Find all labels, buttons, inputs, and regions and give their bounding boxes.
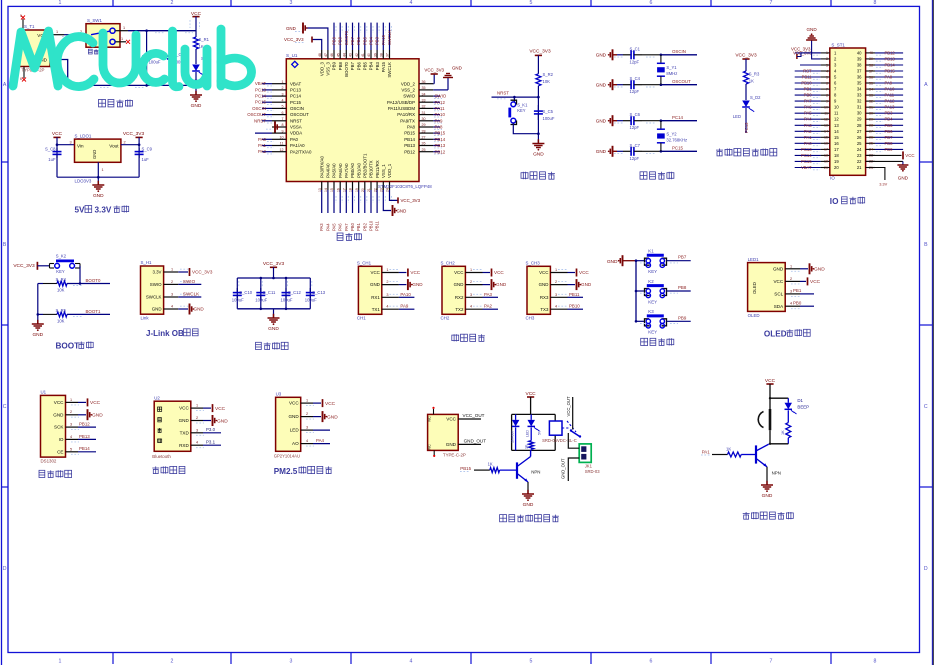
svg-text:SRD-03: SRD-03: [585, 469, 601, 474]
svg-text:S_CH2: S_CH2: [441, 260, 456, 265]
svg-text:PA1/A0: PA1/A0: [290, 143, 305, 148]
svg-text:PB12: PB12: [79, 421, 90, 426]
svg-text:PB4: PB4: [369, 36, 374, 45]
svg-text:100uF: 100uF: [305, 298, 317, 303]
svg-text:CE: CE: [57, 449, 63, 454]
svg-text:20: 20: [834, 165, 839, 170]
svg-text:35: 35: [422, 86, 426, 90]
svg-text:4: 4: [410, 658, 413, 664]
svg-text:S_CH1: S_CH1: [357, 260, 372, 265]
svg-text:VCC: VCC: [494, 270, 504, 275]
svg-text:1uF: 1uF: [142, 157, 150, 162]
svg-text:17: 17: [834, 147, 839, 152]
svg-text:3: 3: [171, 293, 173, 297]
svg-text:34: 34: [869, 87, 873, 91]
svg-text:VDD_1: VDD_1: [387, 163, 392, 178]
svg-text:PB1/A0: PB1/A0: [356, 163, 361, 178]
svg-text:1: 1: [70, 398, 72, 402]
svg-text:2: 2: [171, 280, 173, 284]
svg-text:GND: GND: [596, 82, 607, 87]
svg-text:37: 37: [857, 69, 862, 74]
svg-text:PB7: PB7: [885, 135, 894, 140]
svg-text:28: 28: [422, 129, 426, 133]
svg-text:PA2: PA2: [484, 304, 493, 309]
svg-text:3: 3: [70, 423, 72, 427]
svg-text:D: D: [3, 566, 7, 572]
svg-text:12pF: 12pF: [630, 156, 640, 161]
svg-text:VSS_1: VSS_1: [381, 164, 386, 178]
svg-text:NRST: NRST: [290, 118, 302, 123]
svg-text:SWCLK: SWCLK: [183, 292, 200, 297]
svg-text:PC13: PC13: [290, 88, 302, 93]
svg-text:35: 35: [857, 81, 862, 86]
svg-text:PA9: PA9: [435, 118, 444, 123]
svg-text:13: 13: [824, 124, 828, 128]
svg-text:1: 1: [790, 264, 792, 268]
svg-text:12pF: 12pF: [630, 125, 640, 130]
svg-text:GND: GND: [152, 307, 162, 312]
svg-text:S_ST1: S_ST1: [831, 43, 845, 48]
svg-text:29: 29: [869, 118, 873, 122]
svg-text:PB15: PB15: [460, 466, 471, 471]
svg-text:PB9: PB9: [332, 36, 337, 45]
svg-text:PA1: PA1: [258, 143, 267, 148]
svg-text:BEEP: BEEP: [797, 405, 809, 410]
svg-text:7: 7: [826, 87, 828, 91]
svg-text:SDA: SDA: [774, 304, 784, 309]
svg-text:VCC: VCC: [765, 378, 776, 384]
svg-text:10K: 10K: [57, 288, 65, 293]
svg-text:VCC_3V3: VCC_3V3: [284, 37, 304, 42]
svg-text:PA4: PA4: [316, 438, 325, 443]
svg-text:PB6: PB6: [356, 36, 361, 45]
svg-text:GP2Y1014AU: GP2Y1014AU: [274, 454, 300, 459]
svg-text:2: 2: [555, 280, 557, 284]
svg-text:18: 18: [824, 154, 828, 158]
svg-text:1: 1: [56, 30, 58, 34]
svg-text:GND: GND: [596, 149, 607, 154]
svg-text:PB10/TX: PB10/TX: [369, 160, 374, 178]
svg-text:JK1: JK1: [585, 464, 593, 469]
svg-text:30: 30: [857, 111, 862, 116]
svg-text:PA4/A0: PA4/A0: [326, 163, 331, 178]
svg-text:VCC: VCC: [579, 270, 589, 275]
svg-text:14: 14: [834, 129, 839, 134]
svg-text:S_C9: S_C9: [142, 147, 153, 152]
svg-text:32: 32: [869, 99, 873, 103]
svg-text:PA0: PA0: [804, 141, 812, 146]
svg-text:LDO3V3: LDO3V3: [75, 179, 92, 184]
svg-text:VCC: VCC: [905, 153, 914, 158]
svg-text:OLED: OLED: [752, 282, 757, 294]
svg-text:GND: GND: [286, 26, 296, 31]
svg-text:PA6: PA6: [804, 105, 812, 110]
svg-text:29: 29: [422, 123, 426, 127]
svg-text:IO: IO: [59, 437, 64, 442]
svg-text:K2: K2: [648, 279, 654, 284]
svg-text:PA2/TX/A0: PA2/TX/A0: [290, 149, 312, 154]
svg-text:PB14: PB14: [885, 63, 896, 68]
svg-text:Link: Link: [141, 316, 150, 321]
svg-text:VDDA: VDDA: [290, 131, 302, 136]
svg-text:36: 36: [422, 80, 426, 84]
svg-text:PB12: PB12: [404, 149, 415, 154]
svg-text:34: 34: [422, 92, 426, 96]
svg-text:GND: GND: [179, 418, 190, 423]
svg-text:VCC_3V3: VCC_3V3: [791, 47, 811, 52]
svg-text:24: 24: [869, 148, 873, 152]
svg-text:1: 1: [386, 268, 388, 272]
svg-text:PB15: PB15: [435, 131, 446, 136]
svg-text:9: 9: [282, 129, 284, 133]
svg-text:30: 30: [869, 112, 873, 116]
svg-text:1: 1: [826, 51, 828, 55]
svg-text:GND: GND: [288, 414, 299, 419]
svg-text:OSCOUT: OSCOUT: [247, 112, 266, 117]
svg-text:10K: 10K: [543, 79, 551, 84]
svg-text:BOOT: BOOT: [56, 342, 80, 351]
svg-text:DS1302: DS1302: [41, 458, 57, 463]
svg-text:OLED: OLED: [764, 329, 787, 338]
svg-text:3: 3: [290, 658, 293, 664]
svg-text:3.3V: 3.3V: [879, 181, 887, 186]
svg-text:PB0: PB0: [804, 93, 813, 98]
svg-text:100uF: 100uF: [281, 298, 293, 303]
svg-text:14: 14: [824, 130, 828, 134]
svg-text:100uF: 100uF: [232, 298, 244, 303]
svg-text:K3: K3: [648, 309, 654, 314]
svg-text:BOOT0: BOOT0: [344, 30, 349, 45]
svg-text:PA3: PA3: [484, 292, 493, 297]
svg-text:P3.1: P3.1: [206, 440, 216, 445]
svg-text:VCC_3V3: VCC_3V3: [13, 263, 35, 269]
svg-text:S_R4: S_R4: [56, 277, 67, 282]
svg-text:32: 32: [857, 99, 862, 104]
svg-text:PB10: PB10: [801, 81, 812, 86]
svg-text:GND: GND: [93, 193, 104, 199]
svg-text:VCC_OUT: VCC_OUT: [566, 396, 571, 416]
svg-text:PB14: PB14: [404, 137, 415, 142]
svg-text:S_C4: S_C4: [630, 76, 641, 81]
svg-text:TX3: TX3: [540, 307, 549, 312]
svg-text:PB12: PB12: [435, 149, 446, 154]
svg-text:PB13: PB13: [885, 56, 896, 61]
svg-text:36: 36: [857, 75, 862, 80]
svg-text:1: 1: [555, 268, 557, 272]
svg-text:PB1: PB1: [793, 288, 802, 293]
svg-text:GND: GND: [523, 502, 534, 508]
svg-text:PB8: PB8: [338, 36, 343, 45]
svg-text:10K: 10K: [57, 318, 65, 323]
svg-text:PA3: PA3: [804, 123, 812, 128]
svg-text:B: B: [924, 242, 928, 248]
svg-text:3: 3: [555, 293, 557, 297]
svg-text:OSCOUT: OSCOUT: [290, 112, 309, 117]
svg-text:35: 35: [869, 81, 873, 85]
svg-text:8: 8: [826, 93, 828, 97]
svg-text:PA11: PA11: [885, 93, 895, 98]
svg-text:32: 32: [422, 105, 426, 109]
svg-text:NPN: NPN: [531, 470, 540, 475]
svg-text:33: 33: [422, 98, 426, 102]
svg-text:11: 11: [824, 112, 828, 116]
svg-text:SWIO: SWIO: [435, 94, 447, 99]
svg-text:RX2: RX2: [455, 295, 464, 300]
svg-text:PA7/A0: PA7/A0: [344, 163, 349, 178]
svg-text:VBAT: VBAT: [255, 81, 266, 86]
svg-text:CH3: CH3: [526, 315, 535, 320]
svg-text:A: A: [924, 82, 928, 88]
svg-text:PB11: PB11: [375, 220, 380, 231]
svg-text:GND: GND: [454, 282, 464, 287]
svg-text:38: 38: [857, 63, 862, 68]
svg-text:PB8: PB8: [885, 141, 894, 146]
svg-text:VCC_3V3: VCC_3V3: [529, 49, 551, 55]
svg-text:GND_OUT: GND_OUT: [561, 458, 566, 479]
svg-text:PA10/RX: PA10/RX: [397, 112, 415, 117]
svg-text:33: 33: [857, 93, 862, 98]
svg-text:S_R1: S_R1: [199, 37, 210, 42]
svg-text:TYPE-C-2P: TYPE-C-2P: [443, 452, 466, 457]
svg-text:VBAT: VBAT: [801, 165, 812, 170]
svg-text:4: 4: [386, 305, 388, 309]
svg-text:PB5: PB5: [362, 36, 367, 45]
svg-text:PB1: PB1: [356, 222, 361, 231]
svg-text:8MHz: 8MHz: [666, 71, 677, 76]
svg-text:PC15: PC15: [801, 159, 812, 164]
svg-text:PB15: PB15: [885, 69, 896, 74]
svg-text:2: 2: [70, 410, 72, 414]
svg-text:PB9: PB9: [678, 315, 687, 320]
svg-text:GND: GND: [596, 52, 607, 57]
svg-text:5: 5: [282, 105, 284, 109]
svg-text:26: 26: [857, 135, 862, 140]
svg-text:GND: GND: [446, 442, 457, 447]
svg-text:KEY: KEY: [648, 269, 657, 274]
svg-text:PB10: PB10: [569, 304, 580, 309]
svg-text:1K: 1K: [749, 79, 754, 84]
svg-text:NC: NC: [428, 444, 432, 450]
svg-text:VCC: VCC: [325, 401, 336, 407]
svg-text:100uF: 100uF: [543, 116, 555, 121]
svg-text:PB4: PB4: [885, 117, 894, 122]
svg-text:LED: LED: [526, 430, 530, 437]
svg-text:1K: 1K: [488, 461, 493, 466]
svg-text:GND: GND: [762, 493, 773, 499]
svg-text:SWIO: SWIO: [150, 282, 162, 287]
svg-text:PB7: PB7: [350, 61, 355, 70]
svg-text:28: 28: [869, 124, 873, 128]
svg-text:PB4: PB4: [369, 61, 374, 70]
svg-text:CH1: CH1: [357, 315, 366, 320]
svg-text:GND: GND: [191, 103, 202, 109]
svg-text:SWCLK: SWCLK: [387, 30, 392, 45]
svg-text:S_R3: S_R3: [749, 72, 760, 77]
svg-text:U3: U3: [276, 392, 282, 397]
svg-text:S_Y2: S_Y2: [666, 132, 677, 137]
svg-text:PA3: PA3: [319, 223, 324, 231]
svg-text:7: 7: [282, 117, 284, 121]
svg-text:PB0: PB0: [793, 301, 802, 306]
svg-text:1: 1: [59, 658, 62, 664]
svg-text:VCC: VCC: [54, 400, 64, 405]
svg-text:GND: GND: [581, 282, 592, 287]
svg-text:VCC: VCC: [52, 131, 63, 137]
svg-text:37: 37: [869, 69, 873, 73]
svg-text:RX3: RX3: [540, 295, 549, 300]
svg-text:VCC: VCC: [410, 270, 420, 275]
svg-text:TX1: TX1: [372, 307, 381, 312]
svg-text:KEY: KEY: [517, 108, 526, 113]
svg-text:4: 4: [790, 302, 792, 306]
svg-text:PB0: PB0: [350, 222, 355, 231]
svg-text:6: 6: [650, 658, 653, 664]
svg-text:4: 4: [410, 0, 413, 6]
svg-text:PA8: PA8: [435, 125, 444, 130]
svg-text:A: A: [3, 82, 7, 88]
svg-text:PB0/A0: PB0/A0: [350, 163, 355, 178]
svg-text:VCC: VCC: [371, 270, 380, 275]
svg-text:B: B: [3, 242, 7, 248]
svg-text:S_K1: S_K1: [517, 103, 528, 108]
svg-text:VCC_3V3: VCC_3V3: [263, 261, 285, 267]
svg-text:10: 10: [280, 136, 284, 140]
svg-text:PA5: PA5: [332, 223, 337, 231]
svg-text:28: 28: [857, 123, 862, 128]
svg-text:PC15: PC15: [255, 100, 267, 105]
svg-text:VCC_3V3: VCC_3V3: [192, 270, 213, 275]
svg-text:S_T1: S_T1: [24, 24, 35, 29]
svg-text:PC14: PC14: [290, 94, 302, 99]
svg-text:VCC: VCC: [773, 279, 783, 284]
svg-text:S_C8: S_C8: [45, 147, 56, 152]
svg-text:PA4: PA4: [804, 117, 812, 122]
svg-text:1: 1: [306, 399, 308, 403]
svg-text:GND: GND: [194, 307, 205, 312]
svg-text:1N4007: 1N4007: [511, 430, 515, 443]
svg-text:S_LDO1: S_LDO1: [75, 134, 92, 139]
svg-text:8: 8: [874, 658, 877, 664]
svg-text:VSSA: VSSA: [290, 125, 302, 130]
svg-text:3: 3: [196, 428, 198, 432]
svg-text:VCC_3V3: VCC_3V3: [735, 52, 757, 58]
svg-text:3: 3: [826, 63, 828, 67]
svg-text:1: 1: [121, 37, 123, 41]
svg-text:PA11/USBDM: PA11/USBDM: [388, 106, 416, 111]
svg-text:31: 31: [857, 105, 862, 110]
svg-text:7: 7: [770, 0, 773, 6]
svg-text:BOOT0: BOOT0: [86, 278, 101, 283]
svg-text:PA8: PA8: [885, 75, 893, 80]
svg-text:5: 5: [826, 75, 828, 79]
svg-text:VCC_3V3: VCC_3V3: [424, 68, 444, 73]
svg-text:1: 1: [123, 26, 125, 30]
svg-text:PB14: PB14: [435, 137, 446, 142]
svg-text:8: 8: [874, 0, 877, 6]
svg-text:4: 4: [196, 441, 198, 445]
svg-text:5: 5: [70, 447, 72, 451]
svg-text:PB10: PB10: [369, 220, 374, 231]
svg-text:PB11/RX: PB11/RX: [375, 160, 380, 178]
svg-text:15: 15: [834, 135, 839, 140]
svg-text:PB5: PB5: [363, 61, 368, 70]
svg-text:1: 1: [102, 168, 104, 172]
svg-text:S_R5: S_R5: [56, 308, 67, 313]
svg-text:NRST: NRST: [254, 118, 266, 123]
svg-text:GND: GND: [773, 266, 784, 271]
svg-text:PC14: PC14: [255, 94, 267, 99]
svg-text:PA10: PA10: [435, 112, 446, 117]
svg-text:K1: K1: [648, 249, 654, 254]
svg-text:PA5/A0: PA5/A0: [332, 163, 337, 178]
svg-text:PM2.5: PM2.5: [274, 467, 298, 476]
svg-text:LED: LED: [733, 114, 741, 119]
svg-text:S_C1: S_C1: [630, 46, 641, 51]
svg-text:D1: D1: [797, 398, 803, 403]
svg-text:3: 3: [306, 426, 308, 430]
svg-text:23: 23: [857, 153, 862, 158]
svg-text:31: 31: [422, 111, 426, 115]
svg-text:25: 25: [869, 142, 873, 146]
svg-text:VCC: VCC: [289, 401, 299, 406]
svg-text:IO: IO: [830, 197, 839, 206]
svg-text:S_D2: S_D2: [750, 95, 761, 100]
svg-text:PB2: PB2: [362, 222, 367, 231]
svg-text:S_C12: S_C12: [288, 290, 301, 295]
svg-text:GND: GND: [533, 152, 544, 158]
svg-text:S_C7: S_C7: [630, 143, 641, 148]
svg-text:LED1: LED1: [748, 257, 760, 262]
svg-text:25: 25: [422, 148, 426, 152]
svg-text:2: 2: [826, 57, 828, 61]
svg-text:PA12/USB/DP: PA12/USB/DP: [387, 100, 415, 105]
svg-text:RXD: RXD: [179, 443, 189, 448]
svg-text:VSS_3: VSS_3: [326, 61, 331, 75]
svg-text:S_H1: S_H1: [141, 260, 153, 265]
svg-text:KEY: KEY: [648, 299, 657, 304]
svg-text:GND: GND: [217, 418, 228, 424]
svg-text:12pF: 12pF: [630, 59, 640, 64]
svg-text:PC15: PC15: [290, 100, 302, 105]
svg-text:PB7: PB7: [678, 255, 687, 260]
svg-text:2: 2: [171, 0, 174, 6]
svg-text:PA9/TX: PA9/TX: [400, 118, 415, 123]
svg-text:PC14: PC14: [672, 115, 684, 120]
svg-text:S_R2: S_R2: [543, 72, 554, 77]
svg-text:1: 1: [282, 80, 284, 84]
svg-text:8: 8: [282, 123, 284, 127]
svg-text:GND: GND: [814, 267, 825, 273]
svg-text:3: 3: [470, 293, 472, 297]
svg-text:6: 6: [826, 81, 828, 85]
svg-text:PA15: PA15: [381, 34, 386, 45]
svg-text:4: 4: [306, 439, 308, 443]
svg-text:16: 16: [824, 142, 828, 146]
svg-text:PB3: PB3: [375, 36, 380, 45]
svg-text:PC13: PC13: [801, 147, 812, 152]
svg-text:2: 2: [470, 280, 472, 284]
svg-text:OSCIN: OSCIN: [290, 106, 304, 111]
svg-text:100uF: 100uF: [149, 60, 161, 65]
svg-text:AO: AO: [292, 441, 299, 446]
svg-text:C: C: [3, 404, 7, 410]
svg-text:Vout: Vout: [109, 144, 119, 149]
svg-text:11: 11: [834, 111, 839, 116]
svg-text:4: 4: [470, 305, 472, 309]
svg-text:36: 36: [869, 75, 873, 79]
svg-text:VCC: VCC: [454, 270, 463, 275]
svg-text:PA1: PA1: [804, 135, 812, 140]
